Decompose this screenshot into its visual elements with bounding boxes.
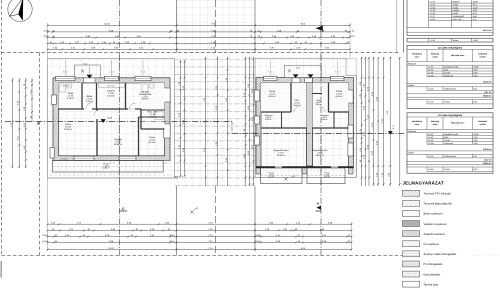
- bottom boundary dotted continuation: [474, 255, 500, 257]
- svg-text:23,18 m²: 23,18 m²: [483, 81, 492, 84]
- svg-text:4,94 m²: 4,94 m²: [141, 98, 149, 101]
- section B arrow overlay: [101, 119, 106, 123]
- left building entrance canopy: [75, 65, 100, 78]
- left wall window: [51, 95, 56, 105]
- svg-text:4,52 m²: 4,52 m²: [268, 176, 275, 179]
- bottom dim row 2: [48, 229, 352, 231]
- section line B right segment: [232, 132, 404, 134]
- bottom wall terrace doors right building: [275, 166, 282, 168]
- left building entrance arrow: [87, 75, 93, 79]
- svg-text:30,12: 30,12: [349, 35, 355, 38]
- svg-text:8: 8: [144, 70, 145, 73]
- bottom dim row 4: [48, 241, 352, 243]
- section line B left segment: [5, 121, 232, 123]
- svg-text:Zsalukő szerkezet: Zsalukő szerkezet: [424, 233, 446, 236]
- svg-text:Számított: Számított: [478, 53, 487, 56]
- svg-text:Fürdő: Fürdő: [453, 12, 459, 15]
- top dim row 4: [48, 42, 351, 44]
- legend item Kavicsfeltöltés: [403, 271, 420, 277]
- svg-text:PS hőszigetelés: PS hőszigetelés: [424, 263, 444, 266]
- left of right building vertical dims: [245, 57, 247, 186]
- svg-text:Homlokzat: Homlokzat: [412, 53, 422, 56]
- svg-text:Terasz: Terasz: [444, 101, 450, 104]
- svg-text:11,29 m²: 11,29 m²: [64, 128, 73, 131]
- svg-text:Helyiség: Helyiség: [431, 53, 440, 56]
- bottom dim row 1: [48, 223, 352, 225]
- svg-text:L2-06: L2-06: [428, 101, 434, 104]
- svg-text:Terasz: Terasz: [453, 39, 459, 42]
- svg-text:5,64 m²: 5,64 m²: [107, 94, 115, 97]
- svg-text:Tervezett tégla válaszfal: Tervezett tégla válaszfal: [424, 203, 453, 206]
- left building entrance door gap: [84, 78, 96, 83]
- bottom wall terrace door and window: [74, 156, 94, 160]
- svg-text:±0,00: ±0,00: [107, 117, 113, 120]
- eaves gutter dashed line: [50, 174, 172, 176]
- svg-text:L1-06: L1-06: [430, 12, 436, 15]
- entrance door gaps top wall: [292, 78, 300, 83]
- svg-text:12,50: 12,50: [255, 240, 261, 243]
- left side vertical dims: [12, 78, 14, 168]
- table L1-09 Terasz strip: [407, 38, 493, 42]
- compass north symbol: [8, 0, 32, 22]
- svg-text:L1-03: L1-03: [430, 3, 436, 6]
- terrace side wall stubs: [256, 168, 261, 174]
- terrace dashed centerline: [53, 166, 164, 168]
- section line A vertical: [320, 0, 322, 256]
- svg-text:8: 8: [141, 70, 142, 73]
- svg-text:30,15: 30,15: [169, 240, 175, 243]
- right building entrance canopy: [285, 65, 322, 78]
- section marker A bottom: [316, 210, 322, 212]
- lot divider long-dash vertical top: [215, 0, 217, 53]
- left building terrace: [53, 161, 164, 173]
- svg-text:8: 8: [110, 70, 111, 73]
- svg-text:Ásványi szálas hőszigetelés: Ásványi szálas hőszigetelés: [424, 252, 458, 256]
- svg-text:8: 8: [163, 161, 164, 164]
- svg-text:2,94 m²: 2,94 m²: [265, 118, 272, 121]
- left wall windows right building: [254, 90, 259, 101]
- svg-text:3,95 m²: 3,95 m²: [293, 104, 301, 107]
- bathroom fixtures left building: [60, 84, 66, 92]
- interior partitions unit L3: [328, 83, 330, 112]
- table L2 room list: [407, 45, 493, 108]
- section marker C bottom: [119, 210, 127, 212]
- svg-text:JELMAGYARÁZAT: JELMAGYARÁZAT: [403, 180, 444, 185]
- bottom boundary dashed line: [2, 255, 404, 257]
- svg-text:L1-08: L1-08: [430, 18, 436, 21]
- kitchen counter: [99, 84, 125, 88]
- svg-text:Konyha: Konyha: [453, 9, 461, 12]
- svg-text:Homlokzat: Homlokzat: [412, 120, 422, 123]
- svg-text:Beton szerkezet: Beton szerkezet: [424, 213, 443, 216]
- wet room tile floors right building: [261, 83, 291, 112]
- legend item Termett talaj: [403, 281, 420, 287]
- svg-text:Galériaszoba: Galériaszoba: [444, 88, 457, 91]
- svg-text:Vendégfürdő: Vendégfürdő: [453, 15, 465, 18]
- legend item Beton szerkezet: [403, 211, 420, 217]
- top dim row 5: [48, 48, 351, 50]
- svg-text:Szoba: Szoba: [453, 6, 460, 9]
- svg-text:terület: terület: [480, 56, 486, 59]
- svg-text:8: 8: [268, 70, 269, 73]
- svg-text:5,89 m²: 5,89 m²: [268, 95, 276, 98]
- svg-text:10,80 m²: 10,80 m²: [102, 167, 110, 170]
- svg-text:Tervezett PTH Klímafal: Tervezett PTH Klímafal: [424, 193, 451, 196]
- section line A overlay through right building: [320, 55, 322, 186]
- svg-text:2,94 m²: 2,94 m²: [321, 118, 328, 121]
- svg-text:terület: terület: [480, 123, 486, 126]
- bottom dim row 3: [48, 236, 352, 238]
- interior partitions unit L2: [290, 83, 292, 112]
- svg-text:4,52 m²: 4,52 m²: [324, 176, 331, 179]
- property boundary dashed left edge: [1, 0, 3, 256]
- entrance arrows right building: [293, 74, 299, 77]
- svg-text:Galériaszoba: Galériaszoba: [444, 155, 457, 158]
- site grid gap strip: [175, 53, 256, 188]
- svg-text:Terasz: Terasz: [444, 168, 450, 171]
- svg-text:19,40 m²: 19,40 m²: [277, 154, 286, 157]
- svg-text:8: 8: [338, 70, 339, 73]
- section B arrow on right building: [388, 131, 393, 135]
- svg-text:Helyiség neve: Helyiség neve: [451, 122, 465, 125]
- site grid between buildings: [177, 0, 256, 53]
- table L1 room list (cut at top): [407, 0, 493, 35]
- svg-text:pm 1,05: pm 1,05: [108, 85, 115, 88]
- svg-text:L3 Lakás helyiséglista: L3 Lakás helyiséglista: [438, 114, 463, 117]
- left building top wall window 1: [56, 76, 76, 80]
- svg-text:L1-07: L1-07: [430, 15, 436, 18]
- svg-text:L2 Lakás helyiséglista: L2 Lakás helyiséglista: [438, 47, 463, 50]
- table L3 room list: [407, 113, 493, 173]
- svg-text:szám: szám: [432, 123, 437, 126]
- svg-text:L1-05: L1-05: [430, 9, 436, 12]
- left building exterior wall: [53, 78, 170, 161]
- gap vertical dims: [205, 57, 207, 186]
- legend item PS hőszigetelés: [403, 261, 420, 267]
- lot divider long-dash vertical bottom: [215, 186, 217, 256]
- svg-text:12,50: 12,50: [42, 240, 48, 243]
- svg-text:12,50: 12,50: [42, 234, 48, 237]
- right wall windows: [164, 88, 170, 102]
- right building exterior wall: [256, 78, 354, 168]
- site grid right building: [255, 58, 357, 177]
- top chain extension verticals: [176, 0, 178, 53]
- svg-text:Termett talaj: Termett talaj: [424, 283, 439, 286]
- svg-text:4,75 m²: 4,75 m²: [67, 97, 75, 100]
- svg-text:L1-02: L1-02: [430, 1, 436, 4]
- svg-text:10,48: 10,48: [473, 39, 479, 42]
- left building top wall window 2: [105, 76, 119, 80]
- legend item Vasbeton szerkezet: [403, 221, 420, 227]
- property boundary dashed horizontal: [2, 52, 400, 54]
- top wall windows right building: [264, 76, 278, 80]
- svg-text:Helyiség neve: Helyiség neve: [451, 54, 465, 57]
- svg-text:Szoba: Szoba: [453, 3, 460, 6]
- svg-text:Nappali: Nappali: [453, 1, 460, 4]
- svg-text:L2-05: L2-05: [428, 88, 434, 91]
- svg-text:5,89 m²: 5,89 m²: [335, 95, 343, 98]
- door openings with swing arcs: [86, 102, 93, 109]
- section marker A arrow top: [316, 26, 323, 31]
- svg-text:19,40 m²: 19,40 m²: [316, 154, 325, 157]
- left wall lower box: [50, 148, 54, 159]
- section line B overlay right: [232, 132, 404, 134]
- svg-text:3,20 m²: 3,20 m²: [86, 100, 94, 103]
- svg-text:12,50: 12,50: [43, 29, 49, 32]
- svg-text:56,70 m²: 56,70 m²: [483, 29, 492, 32]
- right building eaves outline stepped: [255, 58, 357, 177]
- terraces right building: [261, 168, 302, 184]
- legend item Ásványi szálas hőszigetelés: [403, 251, 420, 257]
- svg-text:L1-09: L1-09: [430, 39, 436, 42]
- svg-text:Számított: Számított: [478, 120, 487, 123]
- left building eaves outline: [47, 59, 174, 178]
- top dim row 3: [48, 37, 351, 39]
- right wall windows right building: [348, 90, 353, 103]
- left building top wall window 3: [135, 76, 151, 80]
- door gaps in partitions: [84, 108, 92, 110]
- svg-text:12,50: 12,50: [255, 234, 261, 237]
- top dim row 1 totals 10.24 / 7.10 / 8.00: [48, 24, 351, 26]
- svg-text:12,50: 12,50: [43, 35, 49, 38]
- svg-text:8,13 m²: 8,13 m²: [148, 141, 156, 144]
- svg-text:16,84 m²: 16,84 m²: [114, 143, 123, 146]
- svg-text:8: 8: [66, 70, 67, 73]
- svg-text:8: 8: [335, 70, 336, 73]
- svg-text:2,11 m²: 2,11 m²: [149, 115, 156, 118]
- bottom dim row 5 totals: [48, 248, 352, 250]
- plot edge gray bar bottom-left: [0, 261, 2, 278]
- svg-text:pm 0,08: pm 0,08: [61, 158, 68, 161]
- svg-text:8: 8: [271, 70, 272, 73]
- right of right building vertical dims: [361, 57, 363, 186]
- svg-text:Kavicsfeltöltés: Kavicsfeltöltés: [424, 273, 442, 276]
- svg-text:Házt. hely.: Házt. hely.: [453, 18, 463, 21]
- svg-text:L3-05: L3-05: [428, 155, 434, 158]
- svg-text:Vasbeton szerkezet: Vasbeton szerkezet: [424, 223, 447, 226]
- svg-text:10.24: 10.24: [104, 23, 110, 26]
- legend item Tervezett PTH Klímafal: [403, 190, 420, 196]
- section line B jog: [231, 122, 233, 134]
- svg-text:10.24: 10.24: [108, 247, 114, 250]
- right building party wall: [307, 78, 313, 166]
- property boundary dashed vertical x41: [39, 53, 41, 256]
- legend item Zsalukő szerkezet: [403, 231, 420, 237]
- svg-text:Fa szerkezet: Fa szerkezet: [424, 243, 439, 246]
- svg-text:Helyiség: Helyiség: [431, 120, 440, 123]
- top dim row 2: [48, 31, 351, 33]
- right building glazed south front: [256, 166, 354, 168]
- legend item Fa szerkezet: [403, 241, 420, 247]
- section line C overlay through left building: [118, 55, 120, 186]
- section line C vertical: [118, 0, 120, 256]
- section B arrow on left building: [101, 119, 106, 123]
- svg-text:L3-06: L3-06: [428, 168, 434, 171]
- section line B overlay left: [5, 121, 232, 123]
- legend item Tervezett tégla válaszfal: [403, 200, 420, 206]
- svg-text:szám: szám: [432, 56, 437, 59]
- wet room tile floors left building: [59, 83, 83, 109]
- svg-text:8: 8: [166, 161, 167, 164]
- svg-text:8: 8: [63, 70, 64, 73]
- total vertical dim 8.71: [399, 57, 401, 186]
- svg-text:8: 8: [113, 70, 114, 73]
- svg-text:pm 1,30: pm 1,30: [63, 85, 70, 88]
- right of left building vertical dims: [179, 60, 181, 176]
- interior partition walls left building: [81, 83, 83, 109]
- bottom chain extension verticals: [47, 178, 49, 251]
- svg-text:30,15: 30,15: [169, 234, 175, 237]
- svg-text:34,39: 34,39: [473, 1, 479, 4]
- svg-text:L1-04: L1-04: [430, 6, 436, 9]
- svg-text:8: 8: [110, 161, 111, 164]
- door swing arcs right building: [294, 107, 300, 113]
- svg-text:23,18 m²: 23,18 m²: [483, 148, 492, 151]
- svg-text:8: 8: [113, 161, 114, 164]
- site grid left building: [47, 59, 174, 178]
